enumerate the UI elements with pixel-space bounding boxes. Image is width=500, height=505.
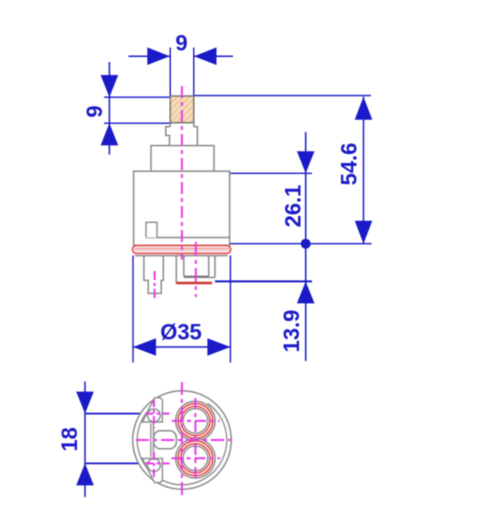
dimension 9 (top) extension lines: [170, 48, 194, 96]
svg-text:13.9: 13.9: [279, 310, 304, 353]
center port outer walls: [176, 256, 215, 284]
center port centerline: [195, 242, 197, 297]
main centerline (front view): [181, 86, 183, 260]
svg-text:18: 18: [57, 427, 82, 451]
dimension 9 (left) line and arrows: [101, 62, 119, 155]
node dot (shared 26.1 / 13.9): [301, 239, 311, 249]
dimension 18 extension lines: [85, 414, 144, 464]
dimension 54.6 extension lines: [194, 96, 372, 244]
left leg centerline: [154, 271, 156, 301]
bottom port circles: [176, 439, 215, 478]
bottom tab horizontal centerline: [146, 462, 170, 464]
svg-text:54.6: 54.6: [337, 143, 362, 186]
collar block: [151, 146, 214, 172]
channel between tabs: [151, 424, 154, 458]
stem hatched section: [170, 96, 194, 123]
top port horizontal centerline: [172, 420, 220, 422]
left leg: [144, 256, 163, 294]
dimension Ø35 extension lines: [133, 256, 230, 363]
dimension 9 (top) left arrow: [129, 47, 170, 65]
dimension 9 (left) extension lines: [104, 97, 170, 123]
bottom-left tab hole: [148, 459, 161, 472]
main body: [134, 171, 230, 245]
bottom-left tab: [142, 458, 162, 482]
ports vertical centerline: [194, 398, 196, 482]
red seal band: [132, 245, 230, 253]
svg-text:Ø35: Ø35: [160, 320, 202, 345]
stem sides below hatch: [170, 123, 194, 127]
svg-text:26.1: 26.1: [281, 185, 306, 228]
top-left tab: [142, 398, 162, 422]
bottom tab vertical centerline: [153, 452, 155, 480]
body inner bottom line: [146, 237, 230, 239]
clamp lug (side view): [146, 222, 157, 237]
dimension 26.1 line and arrow: [297, 132, 315, 244]
flange line below band: [135, 255, 228, 257]
dimension 54.6 line and arrows: [355, 97, 373, 244]
center port inner walls: [184, 256, 209, 277]
center port red bottom line: [176, 282, 212, 285]
dimension 18 line and arrows: [76, 382, 94, 498]
dimension 26.1 extension line: [230, 172, 312, 174]
bottom view main vertical centerline: [181, 382, 183, 497]
outer shell circle: [133, 391, 232, 490]
top tab vertical centerline: [153, 399, 155, 428]
dimension 9 (top) right arrow: [194, 47, 233, 65]
dimension Ø35 line and arrows: [133, 338, 230, 356]
bottom port horizontal centerline: [172, 457, 221, 459]
dimension 13.9 line and arrow: [297, 244, 315, 361]
center port inner bottom (thick gray): [184, 276, 209, 278]
top port circles: [176, 401, 215, 440]
center stadium slot: [154, 431, 177, 449]
dimension 13.9 extension line: [215, 280, 312, 282]
seal band inner line: [135, 248, 229, 250]
top tab horizontal centerline: [146, 413, 170, 415]
bottom view main horizontal centerline: [136, 439, 232, 441]
svg-text:9: 9: [82, 105, 107, 117]
svg-text:9: 9: [175, 31, 187, 56]
top-left tab hole: [148, 409, 161, 422]
inner shell circle: [137, 403, 227, 484]
neck with keyway notch: [166, 127, 198, 146]
